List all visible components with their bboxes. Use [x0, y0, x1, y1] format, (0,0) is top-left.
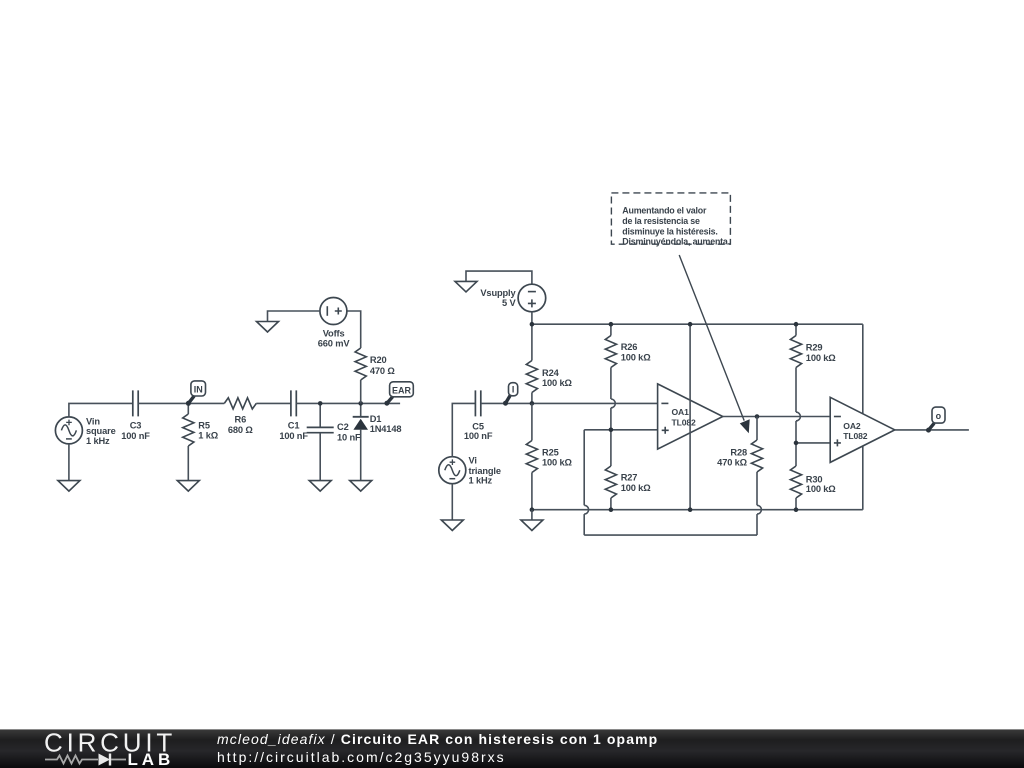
svg-text:Vsupply: Vsupply: [480, 288, 516, 298]
svg-text:470 kΩ: 470 kΩ: [717, 458, 748, 468]
diode D1: [353, 403, 369, 480]
label D1: [370, 414, 402, 434]
node o flag: [926, 407, 945, 433]
label R5: [198, 421, 218, 441]
annotation box: [611, 193, 730, 247]
label OA2: [843, 421, 867, 441]
resistor R28: [751, 417, 762, 473]
label R28: [717, 448, 748, 468]
svg-text:100 nF: 100 nF: [279, 431, 308, 441]
ground R5: [177, 481, 199, 492]
annotation arrow: [679, 255, 750, 433]
label C5: [464, 421, 493, 441]
resistor R25: [526, 403, 537, 509]
svg-text:TL082: TL082: [672, 417, 696, 427]
ground Vi: [441, 520, 463, 531]
junction plus node: [609, 428, 614, 433]
wire plus-input: [584, 429, 657, 431]
svg-text:C2: C2: [337, 422, 349, 432]
junction R27 bottom: [609, 507, 614, 512]
label R26: [621, 342, 652, 363]
resistor R29: [790, 324, 801, 443]
wire Vi top to C5: [452, 403, 475, 456]
junction R30 bottom: [794, 507, 799, 512]
svg-text:10 nF: 10 nF: [337, 432, 361, 442]
svg-text:100 kΩ: 100 kΩ: [806, 484, 837, 494]
node EAR flag: [384, 382, 413, 406]
wire Vsupply to bus: [531, 312, 533, 361]
ground C2: [309, 481, 331, 492]
wire R6 to C1: [256, 402, 291, 404]
source Vin: [55, 417, 82, 444]
svg-text:5 V: 5 V: [502, 298, 516, 308]
svg-text:disminuye la histéresis.: disminuye la histéresis.: [622, 226, 717, 236]
wire C5 to OA1 minus: [481, 402, 658, 404]
wire OA1 output to OA2 minus: [723, 416, 830, 418]
svg-text:I: I: [512, 384, 514, 394]
svg-text:660 mV: 660 mV: [318, 338, 351, 348]
junction R25 bottom: [530, 507, 535, 512]
op-amp OA1: [658, 384, 723, 449]
svg-text:680 Ω: 680 Ω: [228, 425, 253, 435]
op-amp OA2: [830, 397, 895, 462]
junction C5/R24/R25: [530, 401, 535, 406]
capacitor C1: [291, 390, 296, 416]
resistor R26: [605, 324, 616, 430]
resistor R20: [347, 311, 367, 403]
resistor R6: [224, 398, 256, 409]
svg-text:LAB: LAB: [128, 750, 175, 768]
svg-text:IN: IN: [194, 385, 203, 395]
svg-text:R20: R20: [370, 355, 387, 365]
resistor R30: [790, 443, 801, 510]
capacitor C5: [475, 390, 480, 416]
svg-text:de la resistencia se: de la resistencia se: [622, 216, 700, 226]
svg-text:100 nF: 100 nF: [121, 431, 150, 441]
svg-text:Disminuyéndola, aumenta.: Disminuyéndola, aumenta.: [622, 237, 730, 247]
svg-text:R25: R25: [542, 447, 559, 457]
label R24: [542, 368, 573, 388]
source Voffs: [320, 298, 347, 325]
svg-text:1 kHz: 1 kHz: [469, 476, 493, 486]
svg-text:1 kΩ: 1 kΩ: [198, 431, 218, 441]
svg-text:100 kΩ: 100 kΩ: [806, 353, 837, 363]
ground Vsupply: [455, 271, 532, 292]
junction OA2 plus node: [794, 441, 799, 446]
svg-text:100 kΩ: 100 kΩ: [621, 353, 652, 363]
label R29: [806, 343, 837, 364]
resistor R27: [605, 430, 616, 510]
wire right rail (crosses OA2): [862, 324, 864, 510]
svg-text:D1: D1: [370, 414, 382, 424]
wire top bus: [532, 323, 863, 325]
junction R26 top: [609, 322, 614, 327]
wire OA1 power rail (crosses OA1): [688, 322, 693, 512]
label C1: [279, 421, 308, 442]
wire OA2 output: [895, 429, 969, 431]
ground Vin: [58, 481, 80, 492]
svg-text:square: square: [86, 426, 116, 436]
node I flag: [503, 383, 518, 406]
capacitor C3: [133, 390, 138, 416]
svg-text:R6: R6: [235, 414, 247, 424]
junction R29 top: [794, 322, 799, 327]
svg-text:Vi: Vi: [469, 456, 477, 466]
svg-text:100 kΩ: 100 kΩ: [542, 458, 573, 468]
svg-text:OA2: OA2: [843, 421, 861, 431]
junction R28 top: [755, 414, 760, 419]
svg-text:1 kHz: 1 kHz: [86, 436, 110, 446]
svg-text:470 Ω: 470 Ω: [370, 366, 395, 376]
svg-text:R29: R29: [806, 343, 823, 353]
svg-text:Voffs: Voffs: [323, 328, 345, 338]
resistor R5: [183, 403, 194, 480]
junction D1/R20: [358, 401, 363, 406]
junction node IN: [186, 401, 191, 406]
wire OA2 plus input: [796, 442, 830, 444]
wire Voffs to ground: [268, 311, 320, 322]
wire bottom bus: [532, 509, 863, 511]
node IN flag: [186, 381, 206, 406]
junction C2 top: [318, 401, 323, 406]
svg-text:R27: R27: [621, 472, 638, 482]
wire Vi bottom to ground: [451, 484, 453, 520]
capacitor C2: [307, 403, 334, 480]
junction Vsupply bus: [530, 322, 535, 327]
svg-text:C5: C5: [472, 421, 484, 431]
label R25: [542, 447, 573, 467]
logo CircuitLab: [0, 729, 200, 768]
svg-text:R24: R24: [542, 368, 560, 378]
svg-text:TL082: TL082: [843, 431, 867, 441]
label C3: [121, 421, 150, 442]
svg-text:C1: C1: [288, 421, 300, 431]
label Vsupply: [480, 288, 516, 308]
svg-text:OA1: OA1: [672, 407, 690, 417]
svg-text:1N4148: 1N4148: [370, 424, 402, 434]
wire feedback bottom: [584, 534, 757, 536]
label Vi: [469, 456, 501, 486]
source Vi: [439, 457, 466, 484]
svg-text:R5: R5: [198, 421, 210, 431]
source Vsupply: [518, 284, 546, 312]
label Voffs: [318, 328, 351, 348]
svg-text:R28: R28: [730, 448, 747, 458]
wire feedback right to R28: [757, 472, 761, 535]
label Vin: [86, 416, 116, 446]
svg-text:C3: C3: [130, 421, 142, 431]
label R6: [228, 414, 253, 435]
wire C3 to node IN: [138, 402, 224, 404]
wire C1 to EAR end: [296, 402, 400, 404]
footer title: [217, 731, 917, 766]
svg-text:o: o: [936, 411, 942, 421]
resistor R24: [526, 361, 537, 404]
svg-text:100 kΩ: 100 kΩ: [621, 483, 652, 493]
label R30: [806, 475, 837, 494]
label R20: [370, 355, 395, 376]
svg-text:Vin: Vin: [86, 416, 100, 426]
svg-text:100 nF: 100 nF: [464, 431, 493, 441]
svg-text:Aumentando el valor: Aumentando el valor: [622, 206, 707, 216]
wire Vin-bottom to ground: [68, 444, 70, 481]
svg-text:100 kΩ: 100 kΩ: [542, 378, 573, 388]
footer bar: [0, 729, 1024, 768]
label R27: [621, 472, 652, 493]
label OA1: [672, 407, 696, 427]
ground D1: [350, 481, 372, 492]
ground R25: [521, 510, 543, 531]
ground Voffs: [257, 322, 279, 333]
wire feedback left: [584, 430, 588, 535]
svg-text:R26: R26: [621, 342, 638, 352]
svg-text:EAR: EAR: [392, 385, 412, 395]
wire Vin-top to C3: [69, 403, 133, 417]
label C2: [337, 422, 361, 443]
